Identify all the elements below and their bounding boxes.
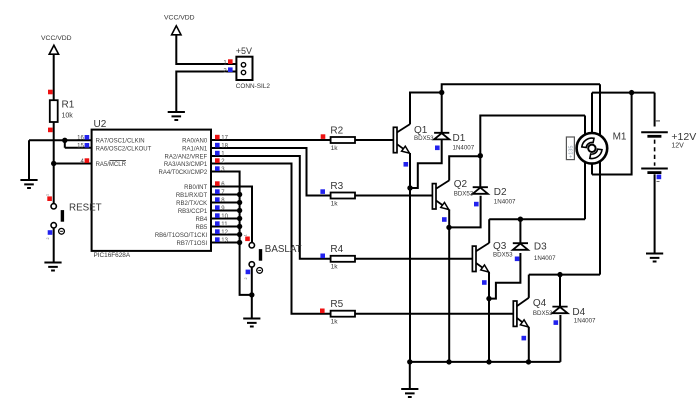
- svg-text:1: 1: [46, 194, 50, 196]
- svg-text:2: 2: [244, 278, 248, 280]
- svg-text:1N4007: 1N4007: [534, 255, 556, 262]
- svg-text:D4: D4: [572, 307, 585, 318]
- svg-text:Q1: Q1: [414, 125, 428, 136]
- svg-text:10: 10: [221, 214, 228, 220]
- svg-text:RB0/INT: RB0/INT: [184, 185, 207, 191]
- svg-text:15: 15: [77, 144, 84, 150]
- svg-text:13: 13: [221, 238, 228, 244]
- svg-text:D1: D1: [453, 133, 466, 144]
- svg-text:17: 17: [221, 135, 228, 141]
- svg-text:10k: 10k: [62, 113, 74, 120]
- svg-text:BDX53: BDX53: [414, 135, 434, 142]
- svg-text:RA3/AN3/CMP1: RA3/AN3/CMP1: [164, 162, 208, 168]
- svg-text:RB7/T1OSI: RB7/T1OSI: [177, 241, 208, 247]
- svg-text:R5: R5: [330, 299, 343, 310]
- svg-text:BDX53: BDX53: [454, 190, 474, 197]
- svg-text:+12V: +12V: [671, 131, 696, 143]
- svg-text:BASLAT: BASLAT: [265, 244, 302, 255]
- svg-text:1k: 1k: [331, 200, 339, 207]
- svg-text:12V: 12V: [671, 143, 684, 150]
- svg-text:RA4/T0CKI/CMP2: RA4/T0CKI/CMP2: [159, 170, 208, 176]
- svg-text:R1: R1: [62, 100, 75, 111]
- svg-text:1: 1: [244, 234, 248, 236]
- svg-text:BDX53: BDX53: [533, 310, 553, 317]
- svg-text:RB2/TX/CK: RB2/TX/CK: [176, 201, 207, 207]
- svg-text:RESET: RESET: [69, 203, 102, 214]
- svg-text:U2: U2: [94, 119, 107, 130]
- svg-text:+5V: +5V: [236, 46, 252, 56]
- svg-text:Q2: Q2: [454, 179, 468, 190]
- svg-text:CONN-SIL2: CONN-SIL2: [236, 83, 271, 90]
- svg-text:RA0/AN0: RA0/AN0: [182, 139, 208, 145]
- svg-text:D2: D2: [494, 187, 507, 198]
- svg-text:12: 12: [221, 230, 228, 236]
- svg-text:D3: D3: [534, 242, 547, 253]
- svg-text:RB6/T1OSO/T1CKI: RB6/T1OSO/T1CKI: [155, 233, 208, 239]
- svg-text:1N4007: 1N4007: [453, 144, 475, 151]
- svg-text:R3: R3: [330, 181, 343, 192]
- svg-text:1k: 1k: [331, 319, 339, 326]
- svg-text:1N4007: 1N4007: [574, 317, 596, 324]
- svg-text:11: 11: [221, 222, 228, 228]
- svg-text:RA6/OSC2/CLKOUT: RA6/OSC2/CLKOUT: [96, 147, 152, 153]
- svg-text:PIC16F628A: PIC16F628A: [94, 252, 131, 259]
- svg-text:RA5/MCLR: RA5/MCLR: [96, 162, 127, 168]
- svg-text:+135: +135: [568, 146, 574, 158]
- svg-text:RB4: RB4: [196, 217, 208, 223]
- svg-text:RB3/CCP1: RB3/CCP1: [178, 209, 208, 215]
- svg-text:RA7/OSC1/CLKIN: RA7/OSC1/CLKIN: [96, 139, 145, 145]
- svg-text:RB5: RB5: [196, 225, 208, 231]
- svg-text:M1: M1: [613, 131, 627, 142]
- svg-text:R4: R4: [330, 244, 343, 255]
- svg-text:Q3: Q3: [493, 241, 507, 252]
- svg-text:BDX53: BDX53: [493, 252, 513, 259]
- svg-text:RA2/AN2/VREF: RA2/AN2/VREF: [165, 155, 208, 161]
- svg-text:2: 2: [46, 238, 50, 240]
- svg-text:RB1/RX/DT: RB1/RX/DT: [176, 193, 208, 199]
- svg-text:18: 18: [221, 143, 228, 149]
- svg-text:1k: 1k: [331, 264, 339, 271]
- svg-text:R2: R2: [330, 125, 343, 136]
- svg-text:VCC/VDD: VCC/VDD: [41, 35, 72, 42]
- svg-text:1k: 1k: [331, 145, 339, 152]
- svg-text:Q4: Q4: [533, 298, 547, 309]
- svg-text:RA1/AN1: RA1/AN1: [182, 147, 208, 153]
- svg-text:VCC/VDD: VCC/VDD: [164, 15, 195, 22]
- svg-text:16: 16: [77, 136, 84, 142]
- svg-text:1N4007: 1N4007: [494, 199, 516, 206]
